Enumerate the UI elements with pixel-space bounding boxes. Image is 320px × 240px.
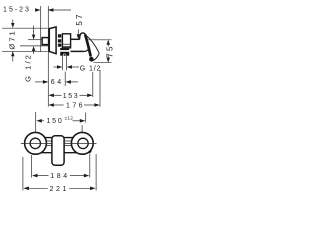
dim 64 left arrow: [43, 80, 49, 84]
product front view: [21, 132, 97, 165]
dim 176 line: [48, 103, 54, 107]
dim 150 line: [36, 119, 42, 123]
body bottom edge: [71, 50, 85, 52]
dim 153 extension line: [92, 72, 94, 97]
cartridge dome: [80, 33, 86, 39]
body slab: [34, 138, 91, 153]
dim 64 right tail: [71, 81, 78, 83]
dim 150 right extension line: [85, 113, 87, 123]
left escutcheon outer circle: [25, 132, 47, 154]
svg-text:221: 221: [50, 186, 69, 193]
handle capsule: [52, 136, 64, 166]
dim 15-23 right arrow with tail: [48, 9, 71, 11]
body top edge: [71, 38, 80, 40]
dim 221 line: [23, 187, 29, 191]
supply pipe left wall: [62, 56, 64, 71]
escutcheon cone: [49, 27, 56, 54]
svg-text:15-23: 15-23: [3, 7, 31, 14]
label G1/2 right leader line: [72, 66, 79, 68]
dim O71 bottom extension line: [2, 50, 48, 52]
svg-text:G 1/2: G 1/2: [24, 53, 33, 82]
body right end: [84, 50, 88, 52]
dim 184 left extension line: [31, 155, 33, 178]
dim O71 vertical line + arrows: [12, 20, 14, 25]
lever thin back edge: [86, 36, 99, 54]
dim 75 bottom extension line: [94, 62, 112, 64]
svg-text:Ø71: Ø71: [8, 29, 17, 49]
right escutcheon inner circle: [78, 138, 88, 148]
label G1/2 right arrows: [54, 66, 58, 68]
pipe in wall top line: [28, 39, 42, 41]
wire wall extension line: [40, 6, 42, 52]
dim 184 line: [32, 174, 38, 178]
svg-text:176: 176: [66, 103, 85, 110]
product side view bold outline: [42, 27, 99, 62]
svg-text:64: 64: [51, 79, 64, 86]
dim 64 right arrow: [65, 80, 71, 84]
dim 57 down arrow: [77, 30, 79, 35]
svg-text:150: 150: [46, 118, 63, 125]
svg-text:75: 75: [106, 44, 115, 57]
slab inner lines: [36, 141, 80, 146]
dim 176 extension line: [99, 70, 101, 107]
supply pipe right wall: [66, 56, 68, 71]
svg-text:±12: ±12: [65, 115, 74, 121]
dim supply pipe lower arrow: [32, 46, 35, 51]
dim 75 line segments: [107, 44, 109, 47]
dim supply pipe upper arrow: [33, 26, 35, 36]
wire escutcheon-back extension line: [47, 6, 49, 107]
dim 64 extension line (pipe axis): [64, 72, 66, 87]
right escutcheon outer circle: [71, 132, 93, 154]
dim 15-23 left arrow: [35, 8, 41, 12]
dim 221 right extension line: [95, 154, 97, 191]
dim O71 top extension line: [2, 27, 48, 29]
union S-connector rect: [42, 38, 49, 45]
connection nut bars: [58, 36, 61, 45]
svg-text:G 1/2: G 1/2: [80, 66, 102, 73]
left escutcheon inner circle: [30, 138, 40, 148]
dim 184 right extension line: [89, 154, 91, 178]
dim 75 arrows: [107, 40, 110, 45]
outlet nut: [60, 48, 69, 50]
dim 75 top extension line: [86, 39, 112, 41]
dim 150 left extension line: [35, 112, 37, 151]
lever front edge band: [85, 35, 90, 55]
slab mid line through circles: [21, 143, 97, 145]
node right escutcheon centerline: [81, 125, 83, 133]
svg-text:153: 153: [63, 93, 79, 100]
dim 221 left extension line: [22, 157, 24, 191]
valve body block: [62, 34, 70, 48]
svg-text:57: 57: [75, 12, 84, 25]
dim 153 line: [48, 94, 54, 98]
lever tip knob: [89, 57, 94, 62]
dim 64 left tail: [35, 81, 43, 83]
pipe in wall bottom line: [20, 45, 50, 47]
lever bottom edge: [92, 53, 100, 61]
svg-text:184: 184: [50, 173, 69, 180]
